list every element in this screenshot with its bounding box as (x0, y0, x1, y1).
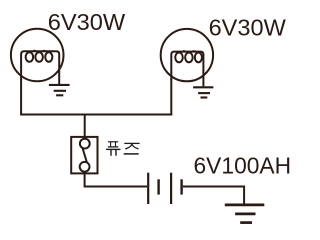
lamp L1 bulb circle (11, 29, 64, 82)
wire: L2 left lead down to bus (170, 79, 172, 115)
wire: battery to ground G3 (183, 187, 244, 204)
fuse F1 bottom contact (80, 162, 90, 172)
퓨 middle bar (108, 146, 119, 148)
battery BT1 plate 3 (long) (170, 173, 172, 204)
lamp L2 bulb circle (161, 29, 213, 81)
fuse F1 link diagonal (83, 148, 87, 163)
ground G2 under lamp L2 (193, 87, 213, 97)
즈 top bar (124, 142, 139, 144)
battery BT1 plate 1 (long) (147, 173, 149, 204)
퓨 wide bar (106, 148, 121, 150)
lamp L2 filament coil (171, 51, 203, 86)
battery BT1 plate 4 (short) (180, 179, 182, 194)
svg-text:6V100AH: 6V100AH (194, 152, 292, 178)
fuse F1 top contact (80, 139, 90, 149)
svg-text:6V30W: 6V30W (48, 9, 126, 35)
lamp L1 filament coil (21, 51, 59, 84)
퓨 legs (111, 150, 116, 156)
wire: L1 left lead down to bus (20, 79, 22, 115)
fuse F1 body (71, 137, 97, 174)
ground G3 (battery ground) (225, 205, 264, 223)
ground G1 under lamp L1 (49, 85, 70, 95)
퓨 top bar (108, 141, 118, 143)
battery BT1 plate 2 (short) (157, 179, 159, 194)
즈 diagonals (125, 144, 138, 149)
wire: fuse bottom to battery (85, 171, 148, 187)
label 퓨즈 (fuse) drawn as strokes (106, 142, 140, 156)
wire: bus down to fuse (84, 114, 86, 140)
svg-text:6V30W: 6V30W (209, 15, 286, 41)
즈 bottom bar (124, 153, 139, 155)
wire: bus connecting L1 and L2 (20, 114, 172, 116)
퓨 inner verticals (111, 142, 116, 146)
